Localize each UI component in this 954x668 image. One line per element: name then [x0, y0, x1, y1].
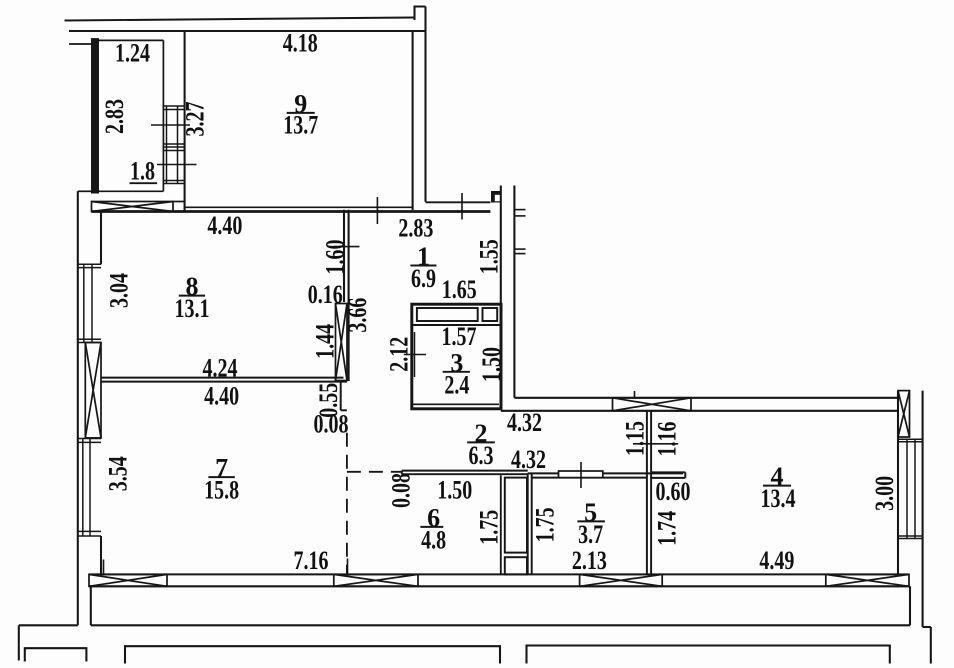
wall shaft left: [500, 475, 502, 573]
svg-text:0.60: 0.60: [656, 477, 691, 506]
hatched wall segment right top: [898, 391, 910, 437]
wall room 2-6 left cap: [401, 471, 403, 475]
furniture shelf 2: [483, 308, 498, 321]
wall room 8-7 divider upper: [101, 377, 344, 379]
wall segment 0.60 bottom: [651, 477, 685, 479]
svg-text:1.74: 1.74: [652, 511, 681, 546]
wall top inner boundary line: [69, 30, 426, 32]
wall left outer boundary: [77, 191, 79, 625]
wall room 5 left a: [527, 473, 529, 573]
svg-text:13.1: 13.1: [175, 294, 210, 323]
svg-text:1.44: 1.44: [311, 324, 340, 359]
room 8 label: [175, 272, 210, 323]
svg-text:0.08: 0.08: [314, 409, 349, 438]
svg-text:4.8: 4.8: [421, 526, 446, 555]
wall bottom band bottom: [89, 585, 909, 587]
wall room 9 left: [184, 31, 186, 212]
wall bottom-right step h: [923, 626, 931, 628]
wall room 4 right inner: [897, 391, 899, 575]
svg-text:4.40: 4.40: [204, 382, 239, 411]
wall bottom-left outer down: [18, 625, 20, 660]
wall balcony thick left: [92, 39, 99, 193]
svg-text:3.27: 3.27: [181, 102, 210, 137]
wall segment 0.60 cap: [684, 472, 686, 478]
wall room 9 bottom inner: [185, 206, 413, 208]
wall room 8 right a: [343, 210, 345, 302]
wall top-right bump: [415, 7, 426, 21]
svg-text:4.40: 4.40: [207, 211, 242, 240]
dimension tick balcony lower: [157, 164, 197, 166]
svg-text:3.66: 3.66: [343, 298, 372, 333]
wall dashed horizontal: [347, 471, 402, 473]
room 6 label: [420, 503, 446, 554]
wall balcony top: [98, 39, 163, 41]
wall lower band left: [90, 586, 92, 625]
wall neighbour strip B: [125, 646, 500, 663]
furniture shelf 1: [417, 308, 478, 321]
svg-text:3.54: 3.54: [104, 456, 133, 491]
svg-text:1.15: 1.15: [621, 421, 650, 456]
dimension tick bottom b: [347, 559, 349, 575]
wall right outer: [922, 391, 924, 627]
wall room 2-6 top: [402, 470, 528, 472]
wall stub right: [513, 186, 515, 398]
wall room 8 right b: [348, 210, 350, 381]
node door hinge mark: [491, 191, 502, 203]
wall room 8-7 divider lower: [101, 381, 347, 383]
hatched wall segment bottom 3: [580, 574, 663, 586]
wall lower band right: [909, 586, 911, 625]
wall room 9 right inner: [412, 31, 414, 210]
wall room 3 shelf line: [412, 324, 501, 326]
window balcony-room9: [163, 106, 184, 184]
wall room 5 top a: [528, 472, 683, 474]
wall top outer boundary line: [65, 18, 415, 21]
svg-text:6.3: 6.3: [469, 441, 494, 470]
svg-text:2.83: 2.83: [100, 99, 129, 134]
dimension tick room5 top: [580, 462, 582, 488]
svg-text:4.32: 4.32: [507, 408, 542, 437]
hatched wall segment bottom 2: [334, 574, 418, 586]
wire left stub line: [69, 43, 92, 45]
wall room 5 left b: [531, 473, 533, 573]
wall balcony right: [162, 40, 164, 191]
wall room 9 right outer: [424, 7, 426, 202]
dimension tick room8 top b: [461, 193, 463, 220]
wall neighbour strip A: [25, 648, 87, 661]
svg-text:3.00: 3.00: [870, 476, 899, 511]
svg-text:15.8: 15.8: [204, 476, 239, 505]
svg-text:2.13: 2.13: [572, 546, 607, 575]
wall partition 5-4 a: [646, 411, 648, 574]
dimension tick balcony upper: [151, 124, 190, 126]
svg-text:1.8: 1.8: [130, 157, 155, 186]
wall dashed vertical: [346, 433, 348, 574]
hatched door leaf room 8: [336, 304, 348, 381]
svg-text:1.60: 1.60: [321, 240, 350, 275]
dimension 1.8 balcony: [130, 157, 158, 186]
svg-text:1.75: 1.75: [475, 510, 504, 545]
dimension tick room8 top a: [376, 197, 378, 224]
hatched wall segment left middle: [85, 343, 101, 438]
svg-text:6.9: 6.9: [411, 264, 436, 293]
wall shaft box: [505, 478, 527, 553]
svg-text:0.16: 0.16: [308, 280, 343, 309]
dimension tick corridor: [634, 391, 636, 399]
hatched wall segment corridor: [613, 398, 692, 411]
svg-text:0.08: 0.08: [387, 473, 416, 508]
wall bottom-left outer corner: [19, 624, 78, 626]
wall segment 0.55 cap: [341, 409, 347, 411]
svg-text:4.32: 4.32: [511, 445, 546, 474]
svg-text:13.7: 13.7: [283, 110, 318, 139]
wall lower band bottom: [91, 624, 910, 626]
dimension tick stair pair 2: [514, 249, 525, 254]
wall room 8 top: [92, 210, 491, 213]
dimension tick 1.15-1.16: [633, 443, 678, 445]
window room 8 left: [78, 264, 101, 342]
dimension tick bottom a: [103, 560, 105, 575]
wall corridor bottom: [501, 410, 898, 412]
svg-text:1.16: 1.16: [652, 422, 681, 457]
wall room 5 top b: [532, 477, 647, 479]
wall segment 0.55 a: [340, 381, 342, 410]
dimension tick 1.60: [334, 246, 360, 248]
room 4 label: [761, 462, 796, 513]
svg-text:1.55: 1.55: [475, 239, 504, 274]
svg-text:1.75: 1.75: [531, 507, 560, 542]
wall segment 0.60 top: [651, 471, 685, 473]
svg-text:3.04: 3.04: [104, 273, 133, 308]
wall room 7 left lower: [100, 536, 102, 574]
svg-text:4.18: 4.18: [283, 29, 318, 58]
room 3 label: [443, 348, 470, 399]
window room 4 right: [898, 439, 923, 538]
wall room 3 left inner seg: [414, 332, 416, 377]
wall stub left: [500, 186, 502, 409]
room 5 label: [577, 498, 605, 549]
wall neighbour strip C: [527, 646, 890, 664]
wall shaft small box: [505, 557, 527, 574]
wall partition 5-4 b: [650, 411, 652, 574]
room 2 label: [467, 419, 495, 470]
room 9 label: [283, 89, 318, 139]
dimension tick stair pair 1: [514, 210, 525, 216]
room 7 label: [204, 454, 239, 505]
svg-text:7.16: 7.16: [294, 546, 329, 575]
svg-text:2.83: 2.83: [398, 213, 433, 242]
wall balcony step: [78, 190, 92, 192]
hatched wall segment top-left: [92, 202, 185, 212]
wall room 8 left upper: [100, 212, 102, 265]
svg-text:1.24: 1.24: [115, 39, 150, 68]
svg-text:2.12: 2.12: [384, 337, 413, 372]
svg-text:1.65: 1.65: [442, 275, 477, 304]
wall room 2-6 bottom: [402, 473, 528, 475]
wall bottom band top: [89, 573, 909, 575]
dimension tick 2.12: [404, 354, 426, 356]
svg-text:1.50: 1.50: [477, 347, 506, 382]
wall room 1 top upper: [426, 201, 491, 203]
wall bottom-right step v: [930, 627, 932, 664]
window room 7 left: [78, 439, 101, 537]
hatched wall segment bottom 4: [826, 574, 909, 586]
hatched wall segment bottom 1: [89, 574, 167, 586]
wall room 3 bottom inner: [413, 403, 499, 405]
wall balcony bottom: [98, 190, 163, 192]
svg-text:1.50: 1.50: [437, 476, 472, 505]
svg-text:3.7: 3.7: [578, 520, 603, 549]
svg-text:2.4: 2.4: [444, 370, 469, 399]
svg-text:4.49: 4.49: [759, 546, 794, 575]
svg-text:1.57: 1.57: [442, 322, 477, 351]
room 1 label: [410, 242, 436, 293]
wall room 3 box: [412, 304, 501, 409]
door lintel room 5: [559, 471, 603, 478]
svg-text:13.4: 13.4: [761, 484, 796, 513]
svg-text:4.24: 4.24: [203, 354, 238, 383]
wall corridor top: [514, 397, 898, 399]
